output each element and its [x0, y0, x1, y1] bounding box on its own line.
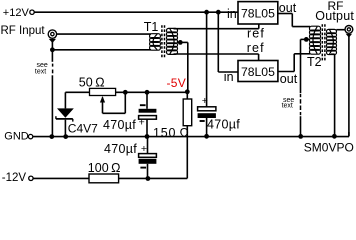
- svg-text:text: text: [282, 103, 293, 110]
- wire T2 tap down to GND: [301, 39, 310, 136]
- wire +12V down to C2: [206, 12, 208, 107]
- op U1 regulator 78L05: [227, 1, 297, 24]
- svg-text:T1: T1: [144, 20, 159, 34]
- svg-text:RF Input: RF Input: [1, 25, 46, 37]
- wire T1 tap to -5V node: [178, 42, 188, 91]
- node GND caps: [145, 134, 150, 139]
- wire RF shell to GND: [51, 75, 53, 136]
- node pot wiper junction: [123, 90, 128, 95]
- pin U1 ref: [247, 24, 265, 41]
- wire RF input top to T1: [57, 33, 151, 35]
- svg-text:+12V: +12V: [3, 7, 30, 19]
- wire U1 out to T2 top: [278, 14, 310, 27]
- transformer T2: [307, 24, 337, 69]
- potentiometer VR1 50ohm: [79, 76, 116, 96]
- capacitor C3 470uf: [104, 137, 156, 179]
- GND terminal: [4, 131, 33, 143]
- svg-text:78L05: 78L05: [241, 65, 275, 79]
- svg-text:100 Ω: 100 Ω: [88, 161, 121, 175]
- svg-text:+: +: [202, 95, 208, 107]
- +12V terminal: [3, 7, 34, 19]
- transformer T1: [144, 20, 178, 58]
- svg-text:out: out: [280, 72, 298, 86]
- svg-text:C4V7: C4V7: [68, 121, 98, 135]
- SM0VPO signature: [304, 140, 354, 154]
- node GND T2 bottom: [332, 134, 337, 139]
- svg-text:50 Ω: 50 Ω: [79, 76, 105, 90]
- wire T2 right bottom down: [331, 54, 335, 136]
- wire T2 to RF output: [336, 29, 345, 31]
- wire pot right to -5V node: [116, 91, 188, 93]
- resistor R2 100ohm: [88, 161, 121, 183]
- svg-text:+: +: [139, 116, 145, 128]
- node +12V to U2 in junction: [216, 10, 221, 15]
- capacitor C2 470uf: [198, 95, 241, 136]
- svg-text:T2: T2: [307, 55, 322, 69]
- svg-text:470µf: 470µf: [207, 118, 240, 132]
- wire GND rail: [33, 132, 349, 137]
- svg-text:150 Ω: 150 Ω: [153, 126, 190, 140]
- wire RF input bottom to T1: [52, 49, 151, 51]
- wire +12V down to U2 in: [218, 12, 238, 72]
- node T2 tap: [304, 37, 309, 42]
- svg-text:78L05: 78L05: [241, 6, 275, 20]
- wire U2 out to T2 bottom: [278, 54, 310, 72]
- node GND RF line: [49, 134, 54, 139]
- node -12V C3: [146, 176, 151, 181]
- node GND tap line: [298, 134, 303, 139]
- node T1 center tap: [178, 40, 183, 45]
- RF Output connector J2: [315, 0, 354, 38]
- pin U2 ref: [247, 41, 265, 60]
- svg-text:Output: Output: [315, 9, 354, 23]
- see text marker (left): [35, 62, 53, 76]
- svg-text:-5V: -5V: [167, 76, 187, 90]
- svg-text:470µf: 470µf: [103, 118, 136, 132]
- wire RF input shell down: [51, 42, 53, 62]
- wire T1 bottom to ref2: [174, 53, 259, 55]
- svg-text:in: in: [224, 70, 234, 84]
- svg-text:SM0VPO: SM0VPO: [304, 140, 354, 154]
- see text marker (right): [282, 97, 295, 110]
- capacitor C1 470uf: [103, 90, 156, 137]
- wire RF output shell down: [348, 37, 350, 137]
- svg-text:ref: ref: [247, 27, 265, 41]
- RF Input connector J1: [1, 25, 57, 43]
- svg-text:-12V: -12V: [2, 172, 27, 184]
- -12V terminal: [2, 172, 33, 184]
- svg-text:in: in: [227, 7, 237, 21]
- wire zener to GND: [64, 120, 66, 137]
- -5V label: [167, 76, 187, 90]
- node +12V to C2 junction: [204, 10, 209, 15]
- svg-text:470µf: 470µf: [104, 142, 137, 156]
- svg-text:GND: GND: [4, 131, 29, 143]
- wire pot left to zener: [65, 92, 89, 108]
- pot wiper arrow: [100, 92, 125, 113]
- zener diode C4V7: [56, 108, 98, 135]
- node GND C2: [204, 134, 209, 139]
- regulator U2 78L05: [224, 61, 298, 86]
- resistor R1 150ohm: [153, 92, 192, 179]
- wire T1 top to ref1: [174, 28, 259, 30]
- node -5V junction: [185, 89, 190, 94]
- svg-text:text: text: [35, 68, 46, 75]
- node GND zener: [63, 134, 68, 139]
- wire +12V rail: [34, 11, 238, 13]
- node RF input lower junction: [50, 47, 55, 52]
- svg-text:ref: ref: [247, 41, 265, 55]
- wire -12V rail: [33, 177, 187, 179]
